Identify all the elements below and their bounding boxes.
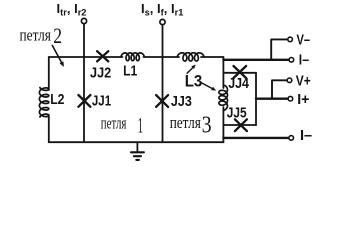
inductor L2 coil: [39, 88, 48, 118]
svg-text:JJ4: JJ4: [228, 75, 249, 92]
terminal circle I- top: [289, 58, 294, 63]
terminal circle V+: [287, 78, 292, 83]
inductor L3 coil: [177, 53, 204, 61]
svg-text:V–: V–: [297, 32, 311, 49]
svg-text:Itr, Ir2: Itr, Ir2: [57, 1, 87, 18]
svg-text:I–: I–: [299, 52, 309, 69]
terminal circle Is/If/Ir1: [160, 19, 165, 24]
arrow L3 pointer up to coil: [187, 68, 193, 74]
svg-text:Is, If, Ir1: Is, If, Ir1: [141, 1, 183, 18]
wire top bus segment between L1 and L3: [144, 56, 180, 58]
terminal circle I- bottom: [289, 136, 294, 141]
svg-text:V+: V+: [296, 72, 311, 89]
wire top bus segment right of L3 to corner: [201, 56, 223, 58]
josephson junction JJ1: [78, 95, 90, 107]
svg-text:петля: петля: [20, 25, 52, 44]
wire branch 2 vertical (terminal Is to bottom bus): [162, 25, 164, 142]
wire to terminal I- bottom (thick): [223, 137, 288, 139]
wire top bus segment left (corner to L1): [49, 56, 123, 58]
svg-text:петля: петля: [170, 113, 201, 132]
inductor readout coupling coil: [219, 85, 228, 111]
svg-text:JJ2: JJ2: [90, 65, 111, 82]
svg-text:L2: L2: [50, 91, 64, 108]
svg-text:JJ1: JJ1: [92, 93, 112, 110]
wire bottom bus: [49, 141, 224, 143]
wire readout loop left vertical lower: [222, 107, 224, 142]
svg-text:I–: I–: [300, 127, 312, 144]
svg-text:1: 1: [138, 112, 143, 137]
wire readout loop right vertical: [255, 73, 257, 125]
terminal circle I+: [288, 96, 293, 101]
wire to terminal V- with bend: [271, 39, 287, 59]
svg-text:JJ5: JJ5: [227, 105, 247, 122]
josephson junction JJ2: [97, 51, 108, 61]
josephson junction JJ3: [156, 95, 168, 107]
svg-text:I+: I+: [297, 91, 310, 108]
svg-text:3: 3: [202, 112, 212, 138]
wire left loop vertical upper (corner to L2): [48, 57, 50, 90]
svg-text:петля: петля: [101, 114, 127, 133]
arrow loop 2 pointer: [52, 45, 61, 62]
wire branch 1 vertical (terminal Itr to bottom bus): [83, 24, 85, 142]
wire readout loop left vertical upper: [222, 57, 224, 88]
wire left loop vertical lower (L2 to bottom bus): [48, 115, 50, 142]
josephson junction JJ5: [235, 119, 247, 131]
terminal circle Itr/Ir2: [81, 18, 86, 23]
svg-text:L3: L3: [185, 73, 203, 91]
ground symbol: [131, 142, 144, 160]
svg-text:JJ3: JJ3: [171, 93, 192, 110]
wire to terminal I- top (thick): [223, 59, 288, 61]
wire JJ4 branch horizontal: [223, 72, 256, 74]
arrow L3 pointer down to coupling coil: [201, 82, 213, 88]
terminal circle V-: [288, 37, 293, 42]
wire to terminal I+ (thick): [256, 97, 288, 99]
svg-text:2: 2: [53, 23, 62, 48]
josephson junction JJ4: [234, 66, 247, 78]
inductor L1 coil: [121, 53, 144, 61]
svg-text:L1: L1: [123, 62, 138, 79]
wire to terminal V+ with bend: [272, 80, 287, 98]
wire JJ5 branch horizontal: [223, 124, 256, 126]
